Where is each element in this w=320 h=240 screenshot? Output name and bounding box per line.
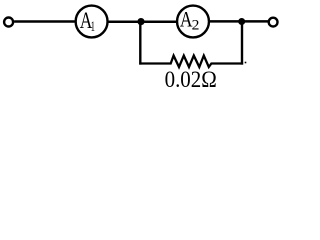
svg-text:2: 2 <box>192 18 200 34</box>
svg-text:1: 1 <box>91 19 95 35</box>
svg-text:0.02Ω: 0.02Ω <box>165 67 217 92</box>
